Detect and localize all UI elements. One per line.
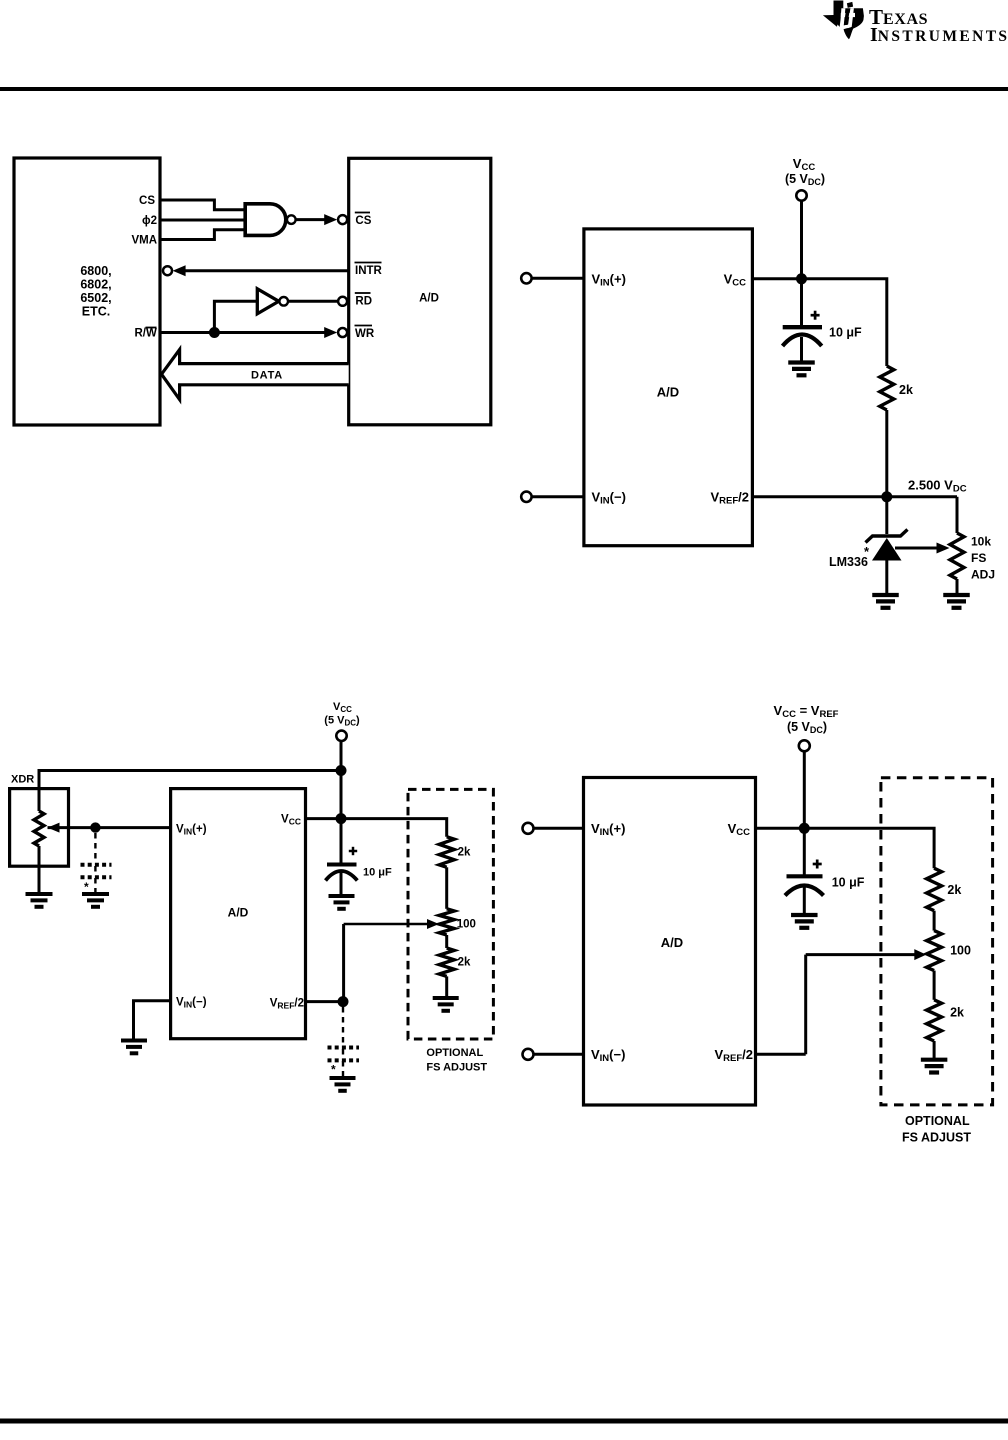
- junction VREF node: [881, 491, 892, 502]
- wire VIN(-) to ground: [134, 1001, 171, 1040]
- svg-text:OPTIONAL: OPTIONAL: [905, 1114, 970, 1128]
- ground below pot: [943, 593, 970, 597]
- svg-text:*: *: [864, 544, 870, 559]
- svg-text:100: 100: [457, 919, 476, 931]
- capacitor C2 plus sign: [349, 850, 357, 853]
- capacitor C3 bottom lead: [803, 886, 806, 914]
- block A/D converter U3: [171, 789, 306, 1039]
- open circle INTR at cpu: [163, 266, 172, 275]
- svg-text:ETC.: ETC.: [82, 305, 110, 319]
- svg-text:FS ADJUST: FS ADJUST: [902, 1131, 971, 1145]
- capacitor C1 top plate: [783, 325, 822, 329]
- wire R/W to WR pin with arrow: [160, 331, 331, 334]
- potentiometer 10k FS ADJ: [950, 533, 964, 579]
- svg-text:R/: R/: [135, 328, 147, 340]
- svg-text:TEXAS: TEXAS: [869, 5, 928, 29]
- open circle RD pin: [338, 297, 347, 306]
- svg-text:VMA: VMA: [131, 235, 157, 247]
- svg-text:10 μF: 10 μF: [829, 326, 862, 340]
- svg-text:VIN(+): VIN(+): [592, 271, 626, 288]
- svg-text:VIN(+): VIN(+): [176, 823, 207, 836]
- DATA bus hollow arrow: [162, 350, 349, 400]
- svg-text:A/D: A/D: [661, 935, 683, 950]
- resistor R4 2k top: [927, 868, 942, 911]
- wire VCC supply down to junction: [340, 741, 343, 819]
- svg-text:2k: 2k: [899, 383, 913, 397]
- capacitor C2 lead: [340, 819, 343, 863]
- wire XDR pot bottom to ground: [38, 846, 41, 894]
- wire VREF/2 pin 2: [756, 1053, 806, 1056]
- terminal VCC supply: [796, 190, 806, 200]
- dashed capacitor plate 2: [328, 1058, 360, 1062]
- wire to VIN(+) pin: [95, 826, 170, 829]
- wire inverter input from R/W line: [214, 301, 257, 332]
- potentiometer 100: [439, 909, 454, 935]
- dashed wire to optional cap: [94, 833, 96, 863]
- svg-text:VCC: VCC: [333, 701, 352, 714]
- ground below C3: [791, 913, 818, 917]
- dashed wire to optional cap 2: [342, 1007, 344, 1046]
- svg-text:CS: CS: [139, 195, 155, 207]
- ground below dashed cap 2: [330, 1076, 356, 1080]
- svg-text:2.500 VDC: 2.500 VDC: [908, 478, 967, 495]
- wire VIN(-) input: [532, 495, 584, 498]
- svg-text:2k: 2k: [950, 1006, 964, 1020]
- block A/D converter U2: [584, 229, 753, 546]
- potentiometer XDR element: [34, 811, 44, 846]
- dashed capacitor gap lead: [94, 866, 96, 876]
- svg-text:A/D: A/D: [419, 293, 439, 305]
- wire VREF/2 wiper feed 2: [804, 955, 807, 1055]
- svg-text:6800,: 6800,: [80, 264, 111, 278]
- TI logo Texas map with ti: [823, 1, 864, 40]
- wire VREF/2 wiper feed: [342, 924, 345, 1002]
- wire VIN(+) input: [532, 277, 584, 280]
- wire pot to ground: [956, 579, 959, 595]
- svg-text:A/D: A/D: [228, 906, 249, 920]
- terminal VIN(+): [523, 823, 534, 834]
- svg-text:INTR: INTR: [355, 265, 383, 277]
- transducer XDR box: [10, 789, 69, 867]
- svg-text:VREF/2: VREF/2: [270, 997, 304, 1010]
- capacitor C1 curved plate: [783, 335, 822, 347]
- NAND output bubble: [287, 215, 296, 224]
- wire VCC pin across to FS network: [306, 819, 447, 837]
- wire R5 to ground: [933, 1041, 936, 1059]
- svg-text:10k: 10k: [971, 535, 991, 549]
- wire LM336 to ground: [885, 560, 888, 595]
- wire across to XDR: [39, 771, 341, 791]
- resistor R3 2k bottom: [439, 948, 454, 976]
- svg-text:INSTRUMENTS: INSTRUMENTS: [870, 24, 1008, 46]
- svg-text:VCC: VCC: [724, 271, 747, 288]
- terminal VIN(-): [521, 492, 531, 502]
- wire LM336 top lead: [885, 497, 888, 534]
- svg-text:100: 100: [950, 944, 971, 958]
- ground below R5: [921, 1058, 948, 1062]
- svg-text:WR: WR: [355, 328, 375, 340]
- svg-text:VCC: VCC: [281, 814, 301, 827]
- capacitor C3 lead: [803, 828, 806, 874]
- ground below C1: [788, 360, 815, 364]
- resistor R2 2k top: [439, 837, 454, 868]
- dashed capacitor plate 1: [328, 1046, 360, 1050]
- capacitor C1 lead: [800, 279, 803, 326]
- junction on R/W line: [209, 327, 220, 338]
- ground below XDR: [26, 892, 53, 896]
- resistor R5 2k bottom: [927, 1000, 942, 1041]
- svg-text:VIN(−): VIN(−): [591, 1047, 625, 1064]
- svg-text:ADJ: ADJ: [971, 568, 995, 582]
- svg-text:VCC: VCC: [728, 821, 751, 838]
- capacitor C1 bottom lead: [800, 337, 803, 362]
- svg-text:10 μF: 10 μF: [363, 867, 392, 879]
- svg-text:VIN(−): VIN(−): [592, 489, 626, 506]
- dashed lead to ground 2: [342, 1061, 344, 1078]
- svg-text:VIN(+): VIN(+): [591, 821, 625, 838]
- svg-text:RD: RD: [355, 296, 372, 308]
- wiper arrow into 100 pot: [344, 923, 432, 926]
- capacitor C3 top plate: [787, 874, 823, 878]
- dashed capacitor plate 1: [81, 863, 112, 867]
- zener diode LM336 cathode bar: [866, 530, 908, 543]
- svg-text:DATA: DATA: [251, 370, 283, 382]
- svg-text:(5 VDC): (5 VDC): [324, 715, 360, 728]
- capacitor C1 10uF plus sign: [811, 314, 820, 317]
- inverter output bubble: [279, 297, 288, 306]
- block 6800/6802/6502 microprocessor: [14, 158, 160, 425]
- junction VCC node: [796, 273, 807, 284]
- optional FS adjust dashed box 2: [881, 778, 993, 1105]
- svg-text:2k: 2k: [458, 847, 471, 859]
- wire INTR with left arrow: [179, 269, 349, 272]
- svg-text:LM336: LM336: [829, 555, 868, 569]
- svg-text:6502,: 6502,: [80, 291, 111, 305]
- wire VCC supply down: [803, 751, 806, 828]
- wire pot to R3: [445, 935, 448, 948]
- junction VREF node: [338, 996, 349, 1007]
- wire CS to NAND input: [160, 200, 245, 210]
- ground below LM336: [872, 593, 899, 597]
- optional FS adjust dashed box: [408, 789, 493, 1039]
- ground below dashed cap: [82, 892, 109, 896]
- dashed capacitor plate 2: [81, 875, 112, 879]
- inverter G2: [257, 289, 279, 314]
- svg-text:2k: 2k: [458, 957, 471, 969]
- wire VIN(-) input: [534, 1053, 584, 1056]
- svg-text:CS: CS: [355, 215, 371, 227]
- wire inverter output to RD pin: [288, 300, 338, 303]
- svg-text:VIN(−): VIN(−): [176, 997, 207, 1010]
- dashed lead to ground: [94, 878, 96, 894]
- wire VCC pin to resistor branch: [752, 279, 886, 366]
- capacitor C2 bottom lead: [340, 872, 343, 896]
- svg-text:*: *: [84, 880, 89, 894]
- svg-text:FS: FS: [971, 551, 986, 565]
- junction to XDR feed: [336, 765, 347, 776]
- wire VMA to NAND input: [160, 230, 245, 240]
- svg-text:(5 VDC): (5 VDC): [787, 720, 827, 735]
- wire VIN(+) input: [534, 827, 584, 830]
- svg-text:OPTIONAL: OPTIONAL: [426, 1047, 483, 1059]
- wire VCC pin across to FS network: [756, 828, 935, 868]
- open circle WR pin: [338, 328, 347, 337]
- svg-text:(5 VDC): (5 VDC): [785, 172, 825, 187]
- wire R4 to pot: [933, 911, 936, 931]
- svg-text:6802,: 6802,: [80, 278, 111, 292]
- svg-text:W: W: [146, 328, 157, 340]
- potentiometer 100 (2): [927, 931, 942, 971]
- resistor R1 2k: [880, 366, 894, 410]
- svg-text:VREF/2: VREF/2: [710, 490, 749, 507]
- wire R3 to ground: [445, 976, 448, 997]
- ground below C2: [329, 894, 355, 898]
- svg-text:VCC = VREF: VCC = VREF: [774, 703, 839, 720]
- wire NAND output to CS pin with arrow: [296, 218, 331, 221]
- ground below VIN(-): [121, 1039, 147, 1043]
- svg-text:10 μF: 10 μF: [832, 876, 865, 890]
- terminal VCC supply: [799, 740, 810, 751]
- wire VREF/2 pin: [306, 1000, 344, 1003]
- junction VIN(+) node: [90, 822, 100, 832]
- capacitor C2 top plate: [327, 863, 357, 867]
- zener diode LM336 anode triangle: [872, 538, 902, 561]
- terminal VCC supply: [336, 731, 346, 741]
- wire pot to R5: [933, 971, 936, 1000]
- wire down to 10k pot: [956, 497, 959, 533]
- wiper arrow into XDR pot: [48, 823, 60, 833]
- wire into pot top: [38, 789, 41, 811]
- svg-text:FS ADJUST: FS ADJUST: [426, 1062, 487, 1074]
- capacitor C2 curved plate: [326, 871, 358, 881]
- terminal VIN(-): [523, 1049, 534, 1060]
- svg-text:A/D: A/D: [657, 385, 679, 400]
- open circle CS pin: [338, 215, 347, 224]
- svg-text:XDR: XDR: [11, 774, 34, 786]
- junction VCC node: [336, 813, 347, 824]
- wire phi2 to NAND input: [160, 219, 245, 222]
- dashed capacitor gap lead: [342, 1049, 344, 1059]
- wire VCC supply down: [800, 201, 803, 279]
- block A/D converter U1: [349, 158, 491, 425]
- junction VCC node: [799, 823, 810, 834]
- top horizontal rule: [0, 87, 1008, 91]
- NAND gate G1: [245, 204, 286, 236]
- wiper arrow into 100 pot (2): [806, 953, 920, 956]
- ground below R3: [433, 996, 459, 1000]
- svg-text:*: *: [331, 1063, 336, 1077]
- wire R2 to pot: [445, 867, 448, 909]
- svg-text:2k: 2k: [947, 883, 961, 897]
- block A/D converter U4: [584, 778, 756, 1106]
- wire VREF/2 pin: [752, 495, 957, 498]
- wiper arrow LM336 to 10k pot: [895, 547, 943, 550]
- capacitor C3 curved plate: [785, 886, 824, 896]
- terminal VIN(+): [521, 273, 531, 283]
- svg-text:VCC: VCC: [793, 156, 816, 173]
- svg-text:ϕ2: ϕ2: [142, 215, 157, 227]
- bottom horizontal rule: [0, 1419, 1008, 1424]
- svg-text:VREF/2: VREF/2: [714, 1047, 753, 1064]
- wire R1 to VREF node: [885, 410, 888, 497]
- capacitor C3 plus sign: [813, 863, 822, 866]
